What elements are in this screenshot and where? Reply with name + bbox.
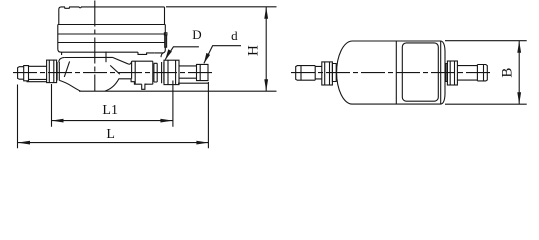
- L1 extension lines: [52, 81, 173, 127]
- svg-text:d: d: [231, 28, 238, 43]
- L extension lines: [18, 82, 209, 148]
- D leader arrowhead: [165, 49, 172, 59]
- right view horizontal centerline: [291, 72, 490, 74]
- H arrow bottom: [264, 79, 268, 91]
- left tailpiece hex: [24, 66, 29, 81]
- right under line: [178, 82, 208, 84]
- housing inner line 2: [58, 42, 166, 44]
- B bottom extension: [445, 103, 527, 105]
- RV right tailpiece: [477, 65, 487, 81]
- body bottom-left curve: [59, 80, 80, 91]
- housing left foot hook: [59, 52, 65, 62]
- box right edge: [440, 41, 442, 104]
- left barrel: [29, 66, 47, 79]
- B arrow bottom: [517, 92, 521, 104]
- body top edge: [64, 56, 112, 58]
- svg-text:L: L: [106, 127, 115, 142]
- H top extension line: [166, 6, 277, 8]
- RV right nut: [447, 61, 457, 85]
- housing inner line 1: [58, 33, 166, 35]
- right pipe: [179, 66, 197, 78]
- left under line: [27, 81, 47, 83]
- funnel diagonal to outlet: [113, 57, 130, 64]
- outlet boss bottom segment: [145, 83, 153, 85]
- D leader: [165, 47, 199, 60]
- right tailpiece: [197, 64, 209, 80]
- left coupling nut: [47, 60, 57, 83]
- RV left pipe: [315, 66, 322, 79]
- RV right pipe: [457, 66, 477, 81]
- RV left collar: [332, 64, 336, 82]
- body bottom line + H extension: [79, 90, 277, 92]
- RV left nut: [322, 62, 333, 85]
- dial vertical centerline: [94, 1, 96, 92]
- outlet boss top: [132, 60, 153, 62]
- H arrow top: [264, 7, 268, 19]
- left tailpiece spigot: [18, 67, 24, 80]
- B dimension line: [518, 41, 520, 104]
- outlet washer: [162, 62, 164, 83]
- inner diagonal center: [110, 65, 120, 74]
- register housing lid (left view): [59, 7, 165, 25]
- L1 arrow left: [52, 119, 64, 123]
- drain plug: [142, 84, 147, 89]
- housing lid bottom line: [59, 24, 165, 26]
- B arrow top: [517, 41, 521, 53]
- L1 dimension line: [52, 120, 173, 122]
- svg-text:L1: L1: [102, 103, 118, 118]
- outlet collar: [154, 63, 157, 82]
- svg-text:H: H: [245, 45, 261, 56]
- svg-text:B: B: [500, 68, 516, 78]
- d leader: [204, 46, 241, 64]
- housing bottom step pocket: [138, 52, 154, 54]
- body center cross tick: [105, 52, 107, 63]
- housing right foot slope: [161, 53, 163, 57]
- inner window rounded rect: [402, 43, 438, 101]
- housing body: [58, 25, 166, 53]
- B top extension: [445, 40, 527, 42]
- L arrow right: [196, 141, 208, 145]
- H dimension line: [265, 7, 267, 91]
- main horizontal centerline (left view): [13, 72, 213, 74]
- capsule seam: [395, 41, 397, 104]
- outlet hook: [129, 61, 132, 64]
- d leader arrowhead: [204, 53, 210, 64]
- body bottom-right curve: [105, 79, 142, 91]
- right view capsule body: [337, 41, 445, 104]
- RV left tailpiece: [296, 66, 316, 81]
- L1 arrow right: [160, 119, 173, 123]
- outlet boss verticals: [132, 61, 153, 84]
- L dimension line: [18, 142, 209, 144]
- svg-text:D: D: [192, 27, 201, 42]
- RV right collar: [446, 64, 448, 82]
- seal pin on housing right: [164, 33, 167, 35]
- right coupling nut: [164, 60, 179, 84]
- inner diagonal left: [64, 61, 69, 77]
- inlet collar verticals: [57, 62, 59, 81]
- L arrow left: [18, 141, 31, 145]
